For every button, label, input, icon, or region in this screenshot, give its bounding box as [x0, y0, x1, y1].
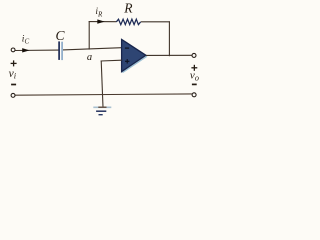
wire: bottom rail: [15, 94, 192, 95]
op-amp U1: [122, 39, 146, 71]
wire: non-inverting input horizontal: [101, 59, 122, 62]
op-amp minus sign: [125, 47, 129, 49]
wire: ground stem vertical: [101, 61, 103, 108]
output terminal (top-right): [192, 53, 196, 57]
ground: [93, 106, 111, 108]
input terminal (top-left): [11, 48, 15, 52]
op-amp plus sign: [125, 60, 129, 62]
wire: input terminal to capacitor left plate: [15, 49, 59, 51]
label + (right): [191, 67, 197, 69]
wire: op-amp output: [146, 54, 192, 56]
svg-text:R: R: [123, 1, 133, 16]
label - (right): [192, 83, 197, 85]
wire: top feedback right segment: [141, 21, 170, 23]
svg-text:a: a: [87, 52, 92, 63]
svg-text:vo: vo: [190, 69, 199, 82]
current arrow iR: [97, 19, 104, 23]
label + (left): [11, 62, 17, 64]
op-amp highlight edge: [122, 56, 147, 72]
wire: feedback tap vertical at node a: [88, 21, 90, 49]
wire: capacitor right plate to op-amp inverting input: [62, 48, 122, 50]
bottom-left terminal: [11, 93, 15, 97]
bottom-right terminal: [192, 93, 196, 97]
svg-text:vi: vi: [9, 68, 17, 81]
capacitor C : right plate (light): [61, 42, 63, 60]
svg-text:C: C: [56, 28, 66, 43]
label - (left): [11, 84, 16, 86]
wire: top feedback left segment: [89, 21, 117, 23]
capacitor C : left plate: [58, 41, 60, 60]
wire: right feedback vertical: [168, 21, 170, 56]
current arrow iC: [22, 48, 29, 52]
resistor R: [116, 19, 140, 24]
